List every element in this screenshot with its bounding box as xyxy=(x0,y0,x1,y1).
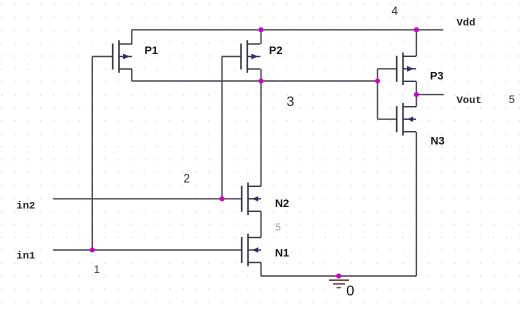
junction dot P2 drain at Vdd xyxy=(259,27,264,32)
transistor N3 xyxy=(397,103,416,136)
svg-text:N1: N1 xyxy=(275,248,289,260)
wire P3 source to Vdd xyxy=(415,30,417,57)
wire bottom ground rail xyxy=(261,275,416,277)
transistor N1 xyxy=(242,234,261,267)
svg-text:5: 5 xyxy=(275,223,281,234)
junction dot node 1 in1 / P1 gate xyxy=(90,248,95,253)
transistor P3 xyxy=(397,53,416,86)
svg-text:P1: P1 xyxy=(145,45,158,57)
wire N3 drain to Vout node xyxy=(415,95,417,107)
wire P1 gate to in1 vertical xyxy=(91,57,93,251)
svg-text:in1: in1 xyxy=(16,250,35,262)
svg-text:Vdd: Vdd xyxy=(457,17,476,29)
svg-text:N3: N3 xyxy=(431,136,445,148)
svg-text:1: 1 xyxy=(94,264,100,276)
wire Vdd rail xyxy=(132,29,443,31)
wire in2 xyxy=(53,198,242,200)
svg-text:3: 3 xyxy=(287,93,295,109)
wire N2 source to N1 drain xyxy=(260,211,262,237)
transistor P2 xyxy=(241,40,260,73)
svg-text:5: 5 xyxy=(509,94,515,106)
svg-text:0: 0 xyxy=(346,284,354,300)
junction dot node 3 at gates xyxy=(375,79,380,84)
wire node-3 rail xyxy=(132,80,378,82)
wire P2 source to N2 drain xyxy=(260,69,262,186)
wire P3 gate lead xyxy=(378,68,397,70)
wire P1 drain to Vdd xyxy=(131,30,133,44)
svg-text:Vout: Vout xyxy=(457,95,482,107)
svg-text:2: 2 xyxy=(184,174,190,186)
transistor N2 xyxy=(242,183,261,216)
svg-text:P2: P2 xyxy=(269,45,282,57)
wire P2 drain to Vdd xyxy=(260,30,262,44)
ground symbol 0 xyxy=(329,280,349,287)
junction dot Vout node xyxy=(414,92,419,97)
wire P3-N3 gate vertical xyxy=(377,69,379,119)
wire output to Vout xyxy=(416,94,443,96)
wire P1 source to node 3 xyxy=(131,69,133,81)
junction dot in2 / P2 gate xyxy=(220,196,225,201)
junction dot node 3 at P2 source xyxy=(259,79,264,84)
wire P2 gate to in2 vertical xyxy=(221,57,223,199)
wire N3 gate lead xyxy=(378,118,397,120)
svg-text:in2: in2 xyxy=(16,200,35,212)
svg-text:4: 4 xyxy=(392,6,399,18)
wire P2 gate lead xyxy=(222,56,241,58)
wire P1 gate lead xyxy=(92,56,112,58)
svg-text:P3: P3 xyxy=(430,71,443,83)
wire P3 drain to Vout node xyxy=(415,81,417,94)
transistor P1 xyxy=(113,40,132,73)
wire in1 xyxy=(53,249,242,251)
wire N3 source to ground rail xyxy=(415,132,417,276)
svg-text:N2: N2 xyxy=(275,198,289,210)
junction dot node 4 at Vdd xyxy=(414,27,419,32)
junction dot ground xyxy=(336,274,341,279)
wire N1 source to ground rail xyxy=(260,263,262,277)
